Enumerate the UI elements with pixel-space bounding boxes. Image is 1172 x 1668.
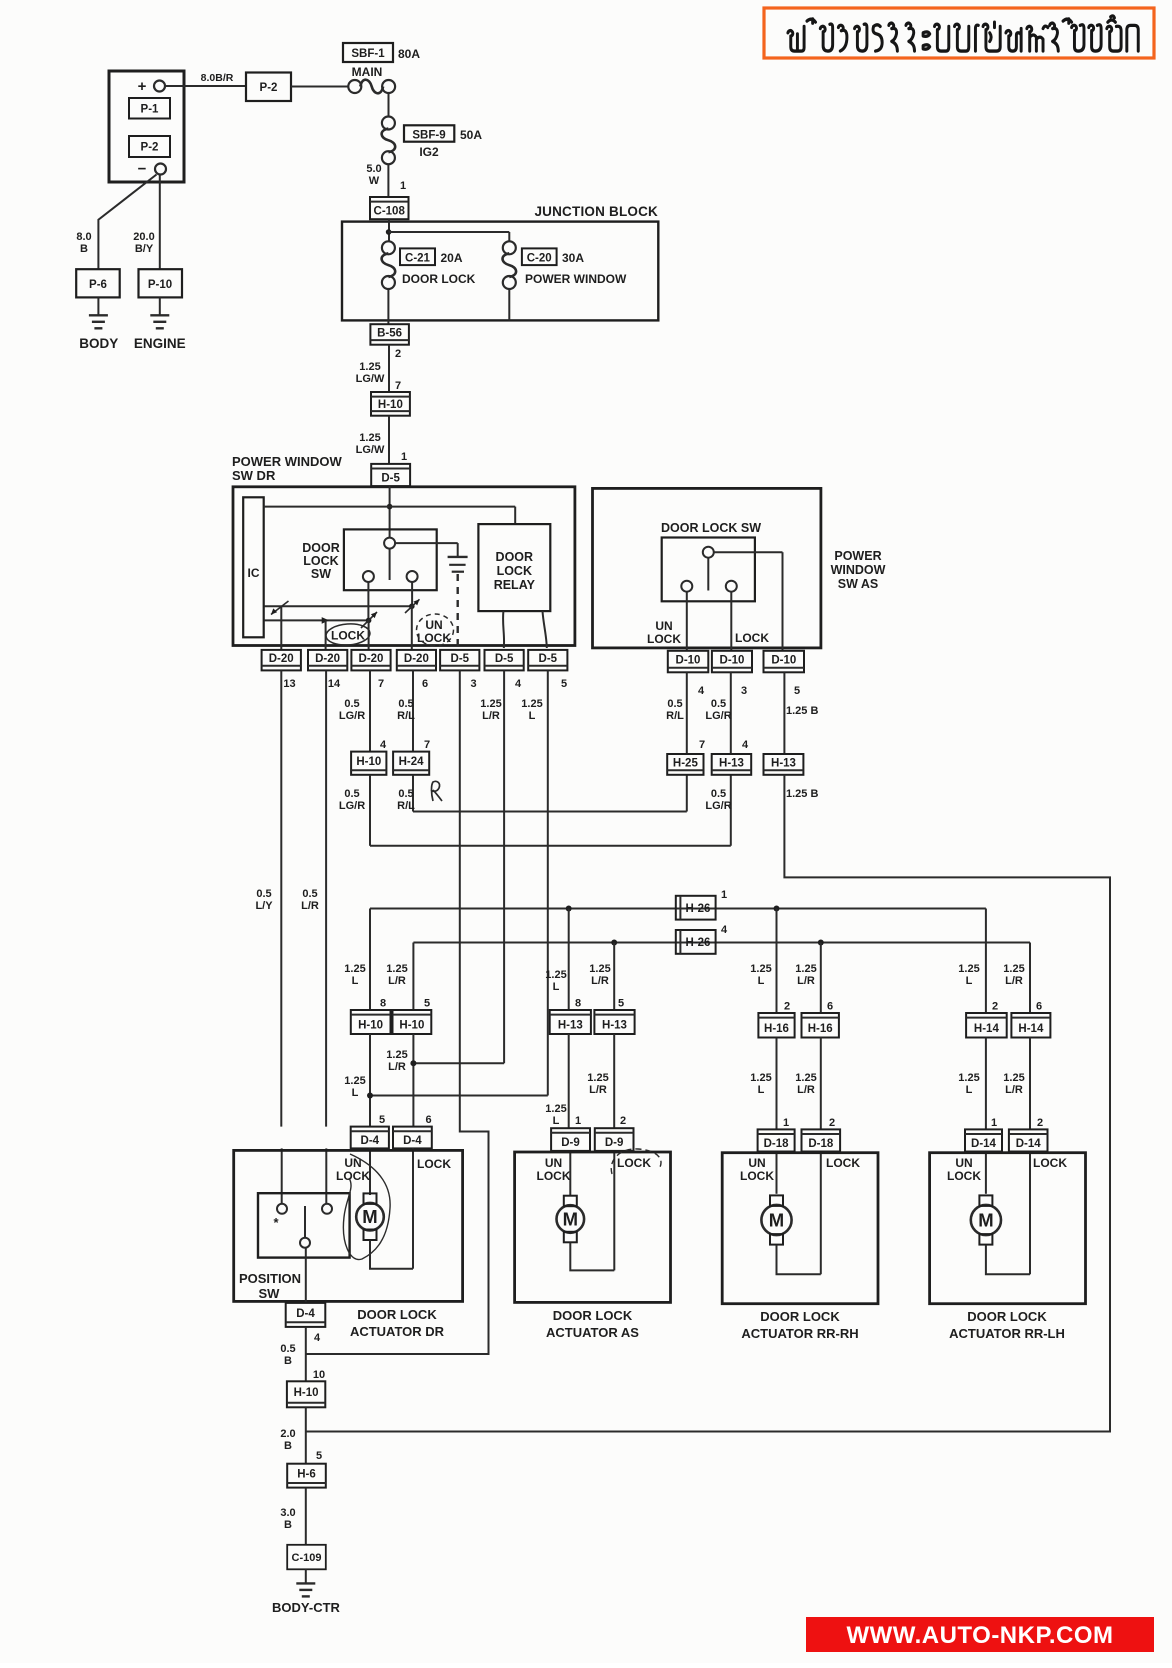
wire 1.25 L to H-14 (958, 909, 998, 1014)
svg-text:D-20: D-20 (404, 653, 429, 665)
svg-text:6: 6 (426, 1114, 432, 1126)
handwritten R mark (431, 781, 442, 801)
svg-text:1.25: 1.25 (795, 963, 816, 975)
svg-text:20A: 20A (441, 251, 463, 265)
wire D-14 pin2 lock side RR-LH (1029, 1152, 1031, 1275)
svg-text:LOCK: LOCK (740, 1169, 774, 1183)
connector D-18 pin 2 (802, 1129, 841, 1151)
svg-text:JUNCTION BLOCK: JUNCTION BLOCK (534, 204, 658, 219)
wire 1.25 L/R to H-14 (1003, 943, 1042, 1014)
svg-text:5: 5 (794, 685, 800, 697)
connector C-108 pin 1 (370, 197, 409, 219)
wire 0.5 LG/R (H-10 to H-13, crossover) (339, 775, 731, 846)
svg-text:30A: 30A (562, 251, 584, 265)
svg-text:2: 2 (395, 348, 401, 360)
wire relay out to D-5 pin 5 (543, 611, 547, 648)
svg-text:L: L (529, 710, 536, 722)
junction block (342, 204, 658, 320)
svg-text:1.25: 1.25 (750, 1072, 771, 1084)
svg-text:ACTUATOR AS: ACTUATOR AS (546, 1325, 639, 1340)
connector H-10 pin 10 (287, 1381, 325, 1407)
svg-text:LOCK: LOCK (331, 629, 365, 643)
svg-text:ACTUATOR DR: ACTUATOR DR (350, 1324, 445, 1339)
svg-text:5: 5 (316, 1450, 322, 1462)
svg-text:D-10: D-10 (676, 655, 701, 667)
svg-text:7: 7 (395, 380, 401, 392)
svg-text:LOCK: LOCK (537, 1169, 571, 1183)
svg-text:DOOR LOCK: DOOR LOCK (357, 1307, 437, 1322)
svg-text:2: 2 (784, 1001, 790, 1013)
svg-text:IC: IC (248, 566, 260, 580)
svg-text:H-10: H-10 (358, 1020, 383, 1032)
svg-text:R/L: R/L (397, 710, 415, 722)
svg-text:L: L (758, 975, 765, 987)
svg-text:5: 5 (561, 678, 567, 690)
svg-text:1: 1 (575, 1115, 581, 1127)
wire D-4 pin6 lock side DR (412, 1148, 414, 1268)
svg-text:D-10: D-10 (720, 655, 745, 667)
svg-text:4: 4 (380, 739, 387, 751)
wire 0.5 B D-4 to H-10 (280, 1327, 325, 1381)
connector P-6 (76, 269, 120, 297)
wire 1.25 L/R to D-18 (795, 1038, 835, 1130)
svg-text:LG/W: LG/W (356, 373, 385, 385)
svg-text:1.25: 1.25 (344, 1075, 365, 1087)
svg-text:1.25 B: 1.25 B (786, 788, 818, 800)
svg-text:H-26: H-26 (686, 903, 711, 915)
svg-text:14: 14 (328, 678, 341, 690)
svg-text:B: B (80, 243, 88, 255)
connector H-14 pin 2 (966, 1013, 1007, 1038)
connector D-20 pin 6 (397, 650, 436, 690)
wire C-108 to fuses junction (386, 219, 509, 241)
svg-text:1.25: 1.25 (521, 698, 542, 710)
wire position sw to D-4 pin 4 (305, 1248, 307, 1303)
svg-text:B-56: B-56 (377, 327, 402, 339)
svg-text:3: 3 (470, 678, 476, 690)
svg-text:ACTUATOR RR-RH: ACTUATOR RR-RH (741, 1326, 858, 1341)
svg-text:D-4: D-4 (361, 1135, 380, 1147)
svg-text:50A: 50A (460, 128, 482, 142)
svg-text:L/R: L/R (1005, 1084, 1023, 1096)
svg-text:H-10: H-10 (356, 756, 381, 768)
connector D-5 pin 4 (485, 650, 524, 690)
svg-text:L: L (966, 1084, 973, 1096)
svg-text:BODY-CTR: BODY-CTR (272, 1600, 341, 1615)
wire SBF-9 to C-108 (366, 163, 406, 197)
connector D-20 pin 7 (351, 650, 390, 690)
connector H-10 pin 8 (351, 1010, 391, 1034)
connector D-20 pin 14 (308, 650, 347, 690)
svg-text:6: 6 (827, 1001, 833, 1013)
svg-text:2: 2 (1037, 1117, 1043, 1129)
svg-text:3: 3 (741, 685, 747, 697)
hand-drawn loop annotation DR (343, 1154, 390, 1260)
svg-text:1.25: 1.25 (359, 432, 380, 444)
connector P-1 (battery) (129, 98, 170, 119)
switch wire unlock side (inside SW DR) (264, 582, 377, 649)
svg-text:D-5: D-5 (539, 653, 558, 665)
switch wire lock side (inside SW DR) (264, 582, 419, 649)
svg-text:SBF-9: SBF-9 (412, 130, 445, 142)
svg-text:5: 5 (424, 998, 430, 1010)
svg-text:L/R: L/R (797, 975, 815, 987)
svg-text:4: 4 (721, 924, 728, 936)
ground BODY-CTR (272, 1569, 341, 1615)
svg-text:M: M (563, 1209, 578, 1230)
svg-text:H-13: H-13 (771, 757, 796, 769)
svg-text:20.0: 20.0 (133, 231, 154, 243)
svg-text:BODY: BODY (79, 336, 118, 351)
wire 1.25 L/R to H-10 (386, 943, 430, 1011)
fuse SBF-1 80A MAIN (343, 43, 420, 93)
svg-text:SBF-1: SBF-1 (351, 48, 385, 60)
svg-text:5.0: 5.0 (366, 163, 381, 175)
connector H-10 pin 4 (351, 752, 386, 775)
svg-text:0.5: 0.5 (344, 788, 359, 800)
connector D-14 pin 2 (1009, 1129, 1048, 1151)
svg-text:M: M (769, 1210, 784, 1231)
svg-text:0.5: 0.5 (711, 788, 726, 800)
connector H-13 pin 8 (550, 1010, 591, 1034)
connector D-18 pin 1 (758, 1129, 795, 1151)
svg-text:D-14: D-14 (1016, 1138, 1042, 1150)
svg-text:H-14: H-14 (974, 1023, 1000, 1035)
wire C-21 to B-56 (387, 289, 389, 324)
connector D-14 pin 1 (965, 1129, 1002, 1151)
svg-text:1.25: 1.25 (1003, 963, 1024, 975)
wire AS lock to D-10 pin 3 (730, 592, 732, 651)
svg-text:LOCK: LOCK (1033, 1156, 1067, 1170)
svg-text:SW: SW (311, 567, 331, 581)
door lock switch AS (661, 521, 783, 601)
svg-text:0.5: 0.5 (667, 698, 682, 710)
connector H-16 pin 2 (758, 1013, 794, 1038)
svg-text:H-10: H-10 (378, 399, 403, 411)
svg-text:LOCK: LOCK (735, 631, 769, 645)
svg-text:LOCK: LOCK (617, 1156, 651, 1170)
svg-text:R/L: R/L (397, 800, 415, 812)
wire 1.25 L to H-16 (750, 909, 790, 1014)
connector B-56 pin 2 (370, 324, 409, 360)
svg-text:LG/R: LG/R (339, 800, 365, 812)
fuse C-21 20A DOOR LOCK (382, 241, 476, 289)
svg-text:B: B (284, 1355, 292, 1367)
svg-text:1: 1 (400, 180, 406, 192)
svg-text:B/Y: B/Y (135, 243, 154, 255)
connector H-6 pin 5 (287, 1464, 326, 1488)
wire D-18 pin2 lock side RR-RH (820, 1152, 822, 1275)
svg-text:UN: UN (655, 619, 672, 633)
svg-text:7: 7 (424, 739, 430, 751)
svg-text:1: 1 (783, 1117, 789, 1129)
connector H-10 pin 5 (393, 1010, 432, 1034)
svg-text:WWW.AUTO-NKP.COM: WWW.AUTO-NKP.COM (846, 1622, 1113, 1649)
svg-text:D-14: D-14 (971, 1138, 997, 1150)
svg-text:1: 1 (401, 451, 407, 463)
wire relay out to D-5 pin 4 (503, 611, 504, 648)
connector H-16 pin 6 (802, 1013, 839, 1038)
svg-text:5: 5 (618, 998, 624, 1010)
svg-text:SW DR: SW DR (232, 468, 276, 483)
svg-text:L: L (352, 975, 359, 987)
svg-text:8: 8 (575, 998, 581, 1010)
svg-text:L/R: L/R (388, 975, 406, 987)
connector D-20 pin 13 (262, 650, 301, 690)
svg-text:H-13: H-13 (602, 1020, 627, 1032)
svg-text:4: 4 (515, 678, 522, 690)
door lock relay (478, 524, 550, 611)
connector P-2 (246, 73, 291, 102)
svg-text:0.5: 0.5 (280, 1343, 295, 1355)
connector D-9 pin 2 (595, 1128, 634, 1151)
svg-text:H-10: H-10 (294, 1387, 319, 1399)
svg-text:H-25: H-25 (673, 757, 699, 769)
svg-text:P-2: P-2 (141, 142, 159, 154)
svg-text:80A: 80A (398, 47, 420, 61)
LOCK label with hand-drawn oval (325, 622, 370, 646)
svg-text:8.0: 8.0 (76, 231, 91, 243)
svg-text:POWER WINDOW: POWER WINDOW (525, 272, 627, 286)
svg-text:6: 6 (1036, 1001, 1042, 1013)
svg-text:7: 7 (378, 678, 384, 690)
connector D-10 pin 4 (668, 651, 709, 697)
svg-text:D-5: D-5 (495, 653, 514, 665)
svg-text:LOCK: LOCK (647, 632, 681, 646)
svg-text:UN: UN (748, 1156, 765, 1170)
connector H-13 pin 4 (705, 754, 751, 812)
svg-text:1: 1 (991, 1117, 997, 1129)
capacitor (key-off illumination) (448, 543, 468, 572)
dashed wire to D-5 pin 3 (457, 574, 459, 648)
connector D-4 pin 5 (351, 1127, 389, 1149)
svg-text:DOOR LOCK SW: DOOR LOCK SW (661, 521, 761, 535)
svg-text:0.5: 0.5 (398, 698, 413, 710)
svg-text:D-20: D-20 (315, 653, 340, 665)
svg-text:LG/R: LG/R (339, 710, 365, 722)
svg-text:DOOR LOCK: DOOR LOCK (553, 1308, 633, 1323)
svg-text:D-4: D-4 (403, 1135, 422, 1147)
svg-text:D-10: D-10 (771, 655, 796, 667)
svg-text:4: 4 (698, 685, 705, 697)
svg-text:DOOR LOCK: DOOR LOCK (967, 1309, 1047, 1324)
svg-text:WINDOW: WINDOW (831, 563, 886, 577)
wire SBF-1 to SBF-9 5.0 W (388, 93, 390, 117)
svg-text:LOCK: LOCK (947, 1169, 981, 1183)
wire 0.5 R/L (H-24 to H-25, crossover) (397, 775, 687, 812)
title box (Thai): ผังวงจรระบบเซนทรัลล็อก (764, 8, 1154, 58)
wire 2.0 B H-10 to H-6 (280, 1407, 322, 1463)
svg-text:0.5: 0.5 (398, 788, 413, 800)
svg-text:LG/W: LG/W (356, 444, 385, 456)
svg-text:8.0B/R: 8.0B/R (201, 72, 234, 84)
wire D-4 pin1 into position switch (281, 1148, 283, 1203)
fuse SBF-9 50A IG2 (382, 117, 483, 165)
ground ENGINE (134, 297, 186, 351)
motor M door lock actuator AS (557, 1196, 615, 1271)
svg-text:P-6: P-6 (89, 279, 107, 291)
connector H-25 pin 7 (667, 754, 703, 775)
svg-text:LOCK: LOCK (336, 1169, 370, 1183)
wire (D-5 pin3) position sw return (307, 670, 489, 1354)
svg-text:SW: SW (259, 1286, 281, 1301)
svg-text:1.25: 1.25 (359, 361, 380, 373)
svg-text:LOCK: LOCK (417, 1157, 451, 1171)
svg-text:L: L (553, 1115, 560, 1127)
svg-text:4: 4 (314, 1332, 321, 1344)
wire 0.5 LG/R (D-20 pin7 to H-10) (339, 670, 387, 751)
connector H-24 pin 7 (393, 752, 429, 775)
svg-text:1: 1 (721, 889, 727, 901)
svg-text:DOOR: DOOR (496, 550, 534, 564)
svg-text:1.25: 1.25 (587, 1072, 608, 1084)
svg-text:3.0: 3.0 (280, 1507, 295, 1519)
connector D-4 pin 6 (393, 1127, 432, 1149)
svg-text:L: L (352, 1087, 359, 1099)
module POWER WINDOW SW DR (232, 454, 575, 646)
svg-text:DOOR LOCK: DOOR LOCK (760, 1309, 840, 1324)
svg-text:R/L: R/L (666, 710, 684, 722)
svg-text:2: 2 (992, 1001, 998, 1013)
svg-text:1.25: 1.25 (545, 1103, 566, 1115)
connector D-5 pin 5 (528, 650, 567, 690)
battery (109, 71, 184, 182)
wire D-18 pin1 to motor RR-RH (776, 1152, 778, 1194)
wire 1.25 L to H-10 (344, 909, 386, 1011)
UN LOCK label (SW AS) (647, 619, 681, 646)
wire AS common to D-10 pin 5 (782, 552, 784, 651)
svg-text:4: 4 (742, 739, 749, 751)
svg-text:+: + (138, 78, 147, 95)
svg-text:W: W (369, 175, 380, 187)
connector P-2 (battery) (129, 136, 170, 157)
connector H-26 pin 4 (676, 924, 728, 954)
svg-text:B: B (284, 1519, 292, 1531)
svg-text:C-20: C-20 (527, 253, 552, 265)
connector H-13 pin 5 (594, 1010, 634, 1034)
door lock actuator RR-RH box (722, 1153, 878, 1341)
wire 1.25 L to D-9 (545, 1034, 581, 1128)
svg-text:POWER WINDOW: POWER WINDOW (232, 454, 342, 469)
wire 1.25 LG/W H-10 to D-5 (356, 416, 407, 464)
wire 1.25 L/R to H-16 (795, 943, 833, 1014)
wire 1.25 L/R to D-9 (587, 1034, 626, 1128)
svg-text:L: L (758, 1084, 765, 1096)
hand-drawn dashed oval around LOCK (AS) (611, 1149, 661, 1174)
connector H-10 pin 7 (371, 392, 410, 416)
svg-text:H-13: H-13 (558, 1020, 583, 1032)
connector D-9 pin 1 (551, 1128, 590, 1151)
svg-text:2: 2 (620, 1115, 626, 1127)
svg-text:L/R: L/R (301, 900, 319, 912)
svg-text:M: M (978, 1210, 993, 1231)
svg-text:L/R: L/R (1005, 975, 1023, 987)
svg-text:0.5: 0.5 (711, 698, 726, 710)
connector H-14 pin 6 (1011, 1013, 1050, 1038)
wire 1.25 L/R to D-4 (386, 1034, 431, 1127)
svg-text:D-18: D-18 (808, 1138, 834, 1150)
connector H-26 pin 1 (676, 889, 727, 920)
svg-text:P-1: P-1 (141, 104, 160, 116)
module POWER WINDOW SW AS (593, 488, 886, 648)
svg-text:1.25: 1.25 (1003, 1072, 1024, 1084)
svg-text:RELAY: RELAY (494, 578, 536, 592)
svg-text:0.5: 0.5 (344, 698, 359, 710)
wire 1.25 B (D-10 pin5 to H-13) (784, 672, 818, 754)
svg-text:1.25: 1.25 (480, 698, 501, 710)
svg-text:L/Y: L/Y (255, 900, 273, 912)
node lock distribution line (1.25 L/R) (413, 940, 1030, 946)
wire 0.5 L/R (D-20 pin14 to D-4 pin2) (301, 670, 326, 1126)
svg-text:L: L (966, 975, 973, 987)
svg-text:H-13: H-13 (719, 757, 744, 769)
svg-text:D-5: D-5 (451, 653, 470, 665)
svg-text:LG/R: LG/R (705, 800, 731, 812)
svg-text:POSITION: POSITION (239, 1271, 301, 1286)
svg-text:L/R: L/R (388, 1061, 406, 1073)
connector D-5 pin 1 (371, 464, 410, 486)
svg-text:−: − (138, 161, 147, 178)
connector D-5 pin 3 (440, 650, 479, 690)
svg-text:D-20: D-20 (359, 653, 384, 665)
wire AS unlock to D-10 pin 4 (686, 592, 688, 651)
svg-text:1.25: 1.25 (386, 963, 407, 975)
motor M door lock actuator DR (356, 1193, 413, 1268)
door lock switch DR (302, 529, 457, 590)
svg-text:ENGINE: ENGINE (134, 336, 186, 351)
svg-text:1.25: 1.25 (344, 963, 365, 975)
connector C-109 (287, 1545, 326, 1570)
svg-text:L/R: L/R (591, 975, 609, 987)
wire D-14 pin1 to motor RR-LH (985, 1152, 987, 1194)
node unlock distribution line (1.25 L) (370, 906, 986, 912)
watermark banner WWW.AUTO-NKP.COM (806, 1617, 1154, 1652)
svg-text:D-18: D-18 (764, 1138, 790, 1150)
svg-text:1.25: 1.25 (545, 969, 566, 981)
svg-text:H-24: H-24 (399, 756, 425, 768)
wire 1.25 L/R to H-13 (589, 943, 624, 1011)
svg-text:L/R: L/R (797, 1084, 815, 1096)
svg-text:5: 5 (379, 1114, 385, 1126)
fuse C-20 30A POWER WINDOW (503, 241, 627, 289)
svg-text:D-20: D-20 (269, 653, 294, 665)
svg-text:0.5: 0.5 (302, 888, 317, 900)
svg-text:SW AS: SW AS (838, 577, 879, 591)
wire 20.0 B/Y battery- to P-10 (133, 175, 160, 270)
wire 3.0 B H-6 to C-109 (280, 1488, 305, 1545)
svg-text:DOOR LOCK: DOOR LOCK (402, 272, 476, 286)
svg-text:C-21: C-21 (405, 253, 431, 265)
wire 1.25 L to H-13 (545, 909, 581, 1011)
svg-text:B: B (284, 1440, 292, 1452)
svg-text:D-9: D-9 (605, 1137, 624, 1149)
svg-text:L/R: L/R (589, 1084, 607, 1096)
connector H-13 (ground side) (764, 754, 804, 775)
svg-text:1.25: 1.25 (958, 963, 979, 975)
svg-text:H-14: H-14 (1018, 1023, 1044, 1035)
connector D-4 pin 4 (bottom) (286, 1303, 326, 1344)
svg-text:LOCK: LOCK (417, 631, 451, 645)
svg-text:M: M (362, 1206, 377, 1227)
connector P-10 (139, 269, 183, 297)
svg-text:13: 13 (283, 678, 295, 690)
svg-text:L/R: L/R (482, 710, 500, 722)
position switch (239, 1193, 350, 1301)
svg-text:P-2: P-2 (260, 82, 278, 94)
svg-text:DOOR: DOOR (302, 541, 340, 555)
svg-text:0.5: 0.5 (256, 888, 271, 900)
UN LOCK label with dashed oval (417, 614, 454, 646)
